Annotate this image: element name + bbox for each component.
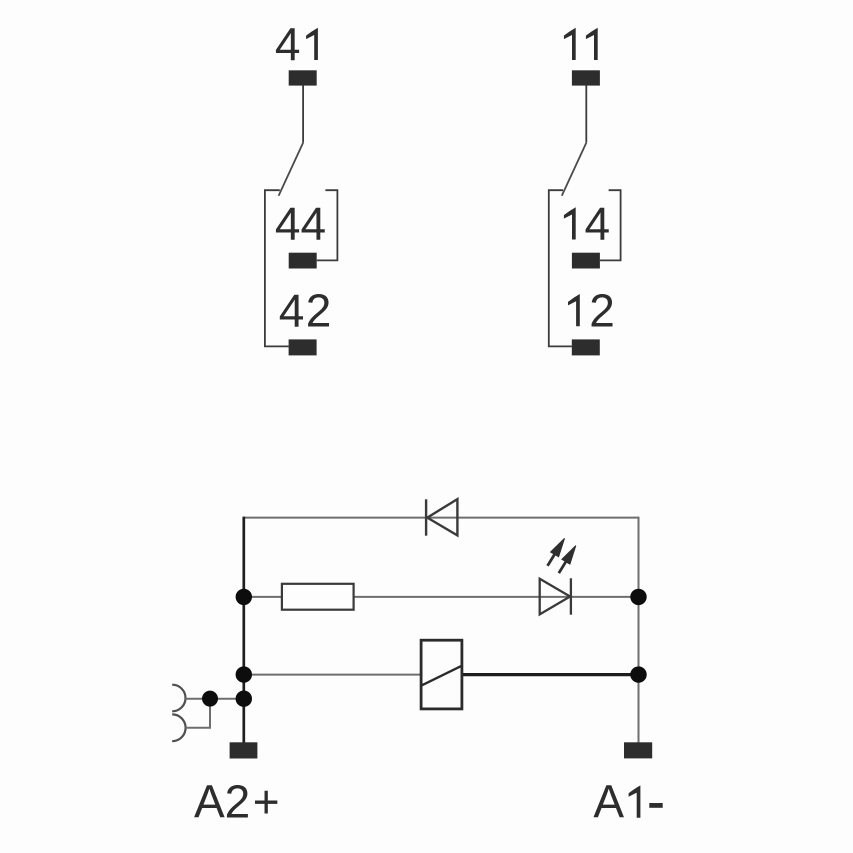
wire: lower socket loop (185, 699, 210, 728)
wire: left vertical branch A2+ (242, 517, 245, 743)
pin label 11 (564, 28, 598, 60)
LED H1 light arrow 1 (548, 538, 565, 566)
svg-text:A: A (593, 776, 624, 828)
wire: right bracket to pad 44 (317, 190, 338, 260)
pin label 14 (564, 207, 576, 239)
junction: left coil rail (236, 666, 252, 682)
wire: right vertical branch A1- (638, 517, 640, 743)
plug contact socket upper arc (172, 685, 185, 712)
junction: left middle rail (236, 589, 252, 605)
wire: top rail A2 to A1 (244, 517, 639, 519)
terminal pad A2+ (230, 742, 258, 758)
junction: right coil rail (630, 666, 646, 682)
svg-text:4: 4 (275, 18, 301, 70)
wire: coil rail left segment (244, 674, 421, 676)
wire: right bracket to pad 14 (600, 190, 621, 260)
terminal pad 41 (289, 70, 317, 85)
relay coil K1 body (421, 640, 462, 709)
junction: right middle rail (630, 589, 646, 605)
junction: left socket rail (236, 691, 252, 707)
svg-text:44: 44 (275, 198, 326, 250)
terminal pad A1- (624, 742, 652, 758)
pin label 12 (568, 294, 580, 326)
svg-text:2: 2 (306, 284, 332, 336)
terminal pad 11 (572, 70, 600, 85)
terminal pad 42 (289, 339, 317, 355)
svg-text:4: 4 (585, 198, 611, 250)
wire: coil rail right segment (462, 673, 639, 676)
svg-text:4: 4 (279, 284, 305, 336)
junction: socket node (202, 691, 218, 707)
switch blade contact 11-14 (562, 143, 587, 196)
LED H1 triangle (540, 579, 570, 615)
switch blade contact 41-44 (279, 143, 304, 196)
terminal pad 14 (572, 253, 600, 269)
diode V1 cathode bar (425, 499, 427, 535)
wire: lead from pad 11 (585, 85, 587, 142)
wire: upper socket to node (185, 698, 244, 700)
plug contact socket lower arc (172, 714, 185, 741)
svg-text:+: + (253, 776, 280, 828)
svg-text:2: 2 (589, 284, 615, 336)
wire: middle rail (resistor/LED branch) (244, 596, 639, 598)
LED H1 light arrow 2 (559, 546, 576, 574)
terminal pad 12 (572, 339, 600, 355)
resistor R1 (282, 584, 354, 610)
diode V1 triangle (427, 499, 457, 535)
wire: left bracket to pad 12 (549, 190, 572, 346)
wire: lead from pad 41 (302, 85, 304, 142)
relay coil K1 diagonal (421, 666, 462, 686)
svg-text:A2: A2 (194, 776, 250, 828)
wire: left bracket to pad 42 (265, 190, 289, 346)
terminal pad 44 (289, 253, 317, 269)
LED H1 cathode bar (570, 578, 572, 614)
